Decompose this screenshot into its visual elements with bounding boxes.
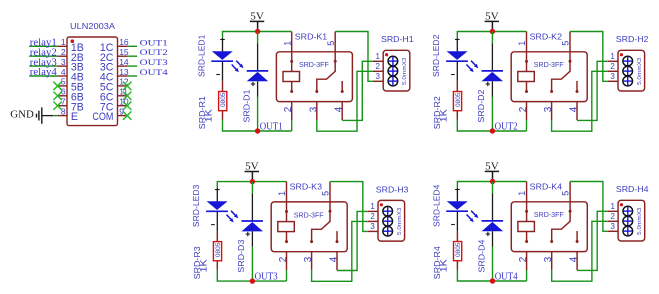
LED SRD-LED3 cathode pin	[216, 212, 218, 231]
relay SRD-K4 body	[511, 202, 587, 252]
svg-text:4: 4	[569, 256, 580, 262]
relay SRD-K3 pin 4	[336, 252, 338, 271]
relay SRD-K1 coil	[291, 52, 293, 72]
no-connect X (right pin)	[123, 102, 131, 110]
junction 5V node (channel 1)	[255, 29, 260, 34]
IC U1 pin 8 (E)	[58, 115, 67, 117]
svg-text:5: 5	[326, 41, 337, 46]
svg-text:SRD-D1: SRD-D1	[241, 89, 251, 122]
LED SRD-LED1 emission arrows	[236, 61, 240, 65]
svg-text:OUT1: OUT1	[260, 121, 283, 132]
wire net relay3	[29, 65, 57, 67]
svg-text:SRD-D4: SRD-D4	[476, 239, 486, 272]
diode SRD-D3 anode pin	[251, 231, 253, 246]
IC U1 pin-1 marker dot	[71, 39, 75, 43]
wire relay pin2 to OUT rail (channel 4)	[526, 270, 528, 281]
wire diode to OUT rail (channel 3)	[251, 247, 253, 282]
connector SRD-H3 pin 2	[368, 220, 378, 222]
LED SRD-LED4 triangle	[447, 201, 468, 210]
IC U1 pin 15 (2C)	[118, 55, 128, 57]
diode SRD-D3 cathode bar	[242, 220, 264, 222]
svg-text:COM: COM	[92, 111, 113, 123]
connector SRD-H2 body	[618, 50, 645, 91]
connector SRD-H4 pin 3	[608, 230, 618, 232]
svg-text:SRD-D2: SRD-D2	[476, 89, 486, 122]
svg-text:3: 3	[610, 222, 615, 231]
svg-text:3: 3	[376, 72, 381, 81]
junction 5V node (channel 4)	[490, 179, 495, 184]
diode SRD-D3 cathode pin	[251, 194, 253, 221]
svg-text:2: 2	[278, 256, 289, 262]
svg-text:1: 1	[610, 52, 615, 61]
relay SRD-K2 pin 4	[576, 102, 578, 121]
IC U1 pin 12 (5C)	[118, 85, 128, 87]
diode SRD-D2 cathode pin	[491, 44, 493, 71]
svg-text:relay4: relay4	[30, 67, 57, 78]
junction OUT3 node	[250, 278, 255, 283]
LED SRD-LED2 emission arrows	[471, 61, 475, 65]
wire relay pin4 to connector pin1 (channel 1)	[342, 61, 373, 120]
relay SRD-K4 pin 3	[551, 252, 553, 271]
relay SRD-K2 pin 2	[526, 102, 528, 121]
svg-text:SRD-LED2: SRD-LED2	[431, 34, 441, 77]
svg-text:4: 4	[329, 256, 340, 262]
IC U1 pin 3 (3B)	[58, 65, 67, 67]
wire relay pin3 to connector pin2 (channel 4)	[552, 221, 608, 281]
svg-text:SRD-LED4: SRD-LED4	[431, 184, 441, 227]
connector SRD-H1 pin 2	[373, 70, 383, 72]
svg-text:OUT3: OUT3	[140, 57, 168, 67]
wire net relay4	[29, 75, 57, 77]
svg-text:5: 5	[321, 191, 332, 196]
no-connect X (left pin)	[53, 92, 61, 100]
resistor SRD-R3 body	[213, 242, 221, 261]
LED SRD-LED2 anode pin	[456, 38, 458, 52]
diode SRD-D4 anode pin	[492, 231, 494, 246]
relay SRD-K2 body	[511, 52, 587, 102]
connector SRD-H4 pin 1	[608, 210, 618, 212]
connector SRD-H3 terminal circle 3	[383, 226, 393, 236]
relay SRD-K2 pin 5	[569, 32, 571, 52]
connector SRD-H2 pin-1 marker dot	[620, 53, 623, 56]
LED SRD-LED1 cathode bar	[211, 60, 233, 62]
wire relay pin2 to OUT rail (channel 2)	[526, 120, 528, 131]
svg-text:SRD-LED1: SRD-LED1	[196, 34, 206, 77]
relay SRD-K3 pin 2	[286, 252, 288, 271]
svg-text:OUT2: OUT2	[495, 121, 518, 132]
LED SRD-LED1 cathode pin	[222, 62, 224, 81]
wire net relay1	[29, 45, 57, 47]
svg-text:OUT4: OUT4	[140, 67, 169, 77]
connector SRD-H1 terminal circle 1	[388, 56, 398, 66]
connector SRD-H2 terminal circle 1	[623, 56, 633, 66]
svg-text:0805: 0805	[221, 92, 227, 107]
svg-text:1: 1	[376, 52, 381, 61]
svg-text:3: 3	[543, 106, 554, 112]
relay SRD-K1 pin 4	[341, 102, 343, 121]
connector SRD-H3 terminal circle 1	[383, 206, 393, 216]
svg-text:4: 4	[61, 67, 66, 77]
connector SRD-H3 pin 3	[368, 230, 378, 232]
diode SRD-D4 cathode pin	[492, 194, 494, 221]
LED SRD-LED4 cathode bar	[446, 210, 468, 212]
connector SRD-H1 body	[383, 50, 410, 91]
relay SRD-K3 pin 5	[329, 182, 331, 202]
wire relay pin4 to connector pin1 (channel 4)	[577, 211, 608, 270]
svg-text:5.0mmX3: 5.0mmX3	[402, 58, 408, 85]
wire 5V top rail (channel 1)	[223, 32, 292, 38]
svg-text:1K: 1K	[439, 109, 449, 122]
relay SRD-K3 coil	[286, 202, 288, 222]
junction 5V node (channel 3)	[250, 179, 255, 184]
svg-text:1: 1	[517, 191, 528, 196]
resistor SRD-R1 body	[219, 92, 227, 111]
svg-text:SRD-K4: SRD-K4	[530, 181, 563, 191]
wire net OUT2 at IC	[127, 55, 137, 57]
svg-text:0805: 0805	[216, 242, 222, 257]
diode SRD-D2 triangle	[482, 72, 504, 81]
svg-text:SRD-H4: SRD-H4	[616, 184, 649, 194]
wire 5V top rail (channel 3)	[217, 182, 286, 188]
svg-text:2: 2	[283, 106, 294, 112]
wire resistor to OUT rail (channel 1)	[223, 120, 292, 132]
IC U1 pin 13 (4C)	[118, 75, 128, 77]
relay SRD-K4 pin 2	[526, 252, 528, 271]
connector SRD-H1 terminal circle 2	[388, 66, 398, 76]
svg-text:5.0mmX3: 5.0mmX3	[637, 208, 643, 235]
wire 5V top rail (channel 2)	[457, 32, 526, 38]
no-connect X (right pin)	[123, 82, 131, 90]
relay SRD-K2 pin 1	[526, 32, 528, 52]
diode SRD-D1 triangle	[247, 72, 269, 81]
connector SRD-H2 terminal circle 2	[623, 66, 633, 76]
wire relay pin2 to OUT rail (channel 1)	[291, 120, 293, 131]
diode SRD-D4 cathode bar	[482, 220, 504, 222]
resistor SRD-R2 body	[453, 92, 461, 111]
svg-text:SRD-3FF: SRD-3FF	[299, 62, 329, 69]
wire relay pin4 to connector pin1 (channel 2)	[577, 61, 608, 120]
svg-text:2: 2	[370, 212, 375, 221]
no-connect X (left pin)	[53, 102, 61, 110]
connector SRD-H1 pin-1 marker dot	[385, 53, 388, 56]
svg-text:SRD-K1: SRD-K1	[295, 31, 328, 41]
connector SRD-H3 pin 1	[368, 210, 378, 212]
svg-text:3: 3	[543, 256, 554, 262]
LED SRD-LED1 triangle	[212, 51, 233, 60]
svg-text:1K: 1K	[439, 259, 449, 272]
wire GND to pin 8	[42, 115, 53, 117]
relay SRD-K4 pin 1	[526, 182, 528, 202]
relay SRD-K2 switch	[569, 60, 572, 63]
no-connect X (right pin)	[123, 111, 131, 119]
svg-text:SRD-D3: SRD-D3	[236, 239, 246, 272]
wire relay pin5 to connector pin3 (channel 3)	[330, 182, 368, 232]
IC U1 pin 6 (6B)	[58, 95, 67, 97]
resistor SRD-R1 pins	[222, 81, 224, 91]
svg-text:1: 1	[61, 37, 66, 47]
IC U1 pin 14 (3C)	[118, 65, 128, 67]
svg-text:SRD-LED3: SRD-LED3	[191, 184, 201, 227]
svg-text:GND: GND	[10, 110, 34, 121]
connector SRD-H3 body	[378, 200, 405, 241]
svg-text:2: 2	[518, 106, 529, 112]
wire resistor to OUT rail (channel 2)	[457, 120, 526, 132]
svg-text:1: 1	[282, 41, 293, 46]
wire net relay2	[29, 55, 57, 57]
wire relay pin5 to connector pin3 (channel 4)	[570, 182, 608, 232]
junction 5V node (channel 2)	[490, 29, 495, 34]
svg-text:SRD-K2: SRD-K2	[530, 31, 563, 41]
wire diode to OUT rail (channel 2)	[491, 97, 493, 132]
wire relay pin5 to connector pin3 (channel 1)	[335, 32, 373, 82]
svg-text:3: 3	[61, 57, 66, 67]
connector SRD-H4 pin-1 marker dot	[620, 203, 623, 206]
svg-text:0805: 0805	[456, 242, 462, 257]
connector SRD-H1 pin 1	[373, 60, 383, 62]
connector SRD-H1 terminal circle 3	[388, 76, 398, 86]
LED SRD-LED4 emission arrows	[471, 211, 475, 215]
svg-text:5: 5	[561, 41, 572, 46]
connector SRD-H4 terminal circle 2	[623, 216, 633, 226]
svg-text:OUT1: OUT1	[140, 37, 168, 47]
LED SRD-LED2 cathode bar	[446, 60, 468, 62]
svg-text:2: 2	[518, 256, 529, 262]
no-connect X (left pin)	[53, 82, 61, 90]
svg-text:3: 3	[370, 222, 375, 231]
wire diode to OUT rail (channel 4)	[492, 247, 494, 282]
resistor SRD-R3 pins	[216, 231, 218, 241]
svg-text:1: 1	[517, 41, 528, 46]
svg-text:SRD-3FF: SRD-3FF	[534, 62, 564, 69]
resistor SRD-R4 pins	[456, 231, 458, 241]
connector SRD-H1 pin 3	[373, 80, 383, 82]
relay SRD-K1 switch	[334, 60, 337, 63]
junction OUT2 node	[490, 128, 495, 133]
connector SRD-H3 pin-1 marker dot	[380, 203, 383, 206]
svg-text:3: 3	[303, 256, 314, 262]
svg-text:4: 4	[334, 106, 345, 112]
connector SRD-H4 body	[618, 200, 645, 241]
svg-text:1: 1	[610, 202, 615, 211]
LED SRD-LED3 triangle	[207, 201, 228, 210]
IC U1 pin 11 (6C)	[118, 95, 128, 97]
relay SRD-K4 pin 4	[576, 252, 578, 271]
diode SRD-D3 triangle	[242, 222, 264, 231]
svg-text:1: 1	[370, 202, 375, 211]
relay SRD-K3 switch	[329, 210, 332, 213]
relay SRD-K2 pin 3	[551, 102, 553, 121]
relay SRD-K1 pin 2	[291, 102, 293, 121]
connector SRD-H2 terminal circle 3	[623, 76, 633, 86]
connector SRD-H4 terminal circle 3	[623, 226, 633, 236]
relay SRD-K4 pin 5	[569, 182, 571, 202]
svg-text:OUT3: OUT3	[255, 272, 278, 283]
wire resistor to OUT rail (channel 4)	[457, 270, 526, 282]
IC U1 pin 4 (4B)	[58, 75, 67, 77]
svg-text:0805: 0805	[456, 92, 462, 107]
LED SRD-LED3 emission arrows	[231, 211, 235, 215]
svg-text:SRD-H1: SRD-H1	[381, 34, 414, 44]
svg-text:2: 2	[610, 62, 615, 71]
diode SRD-D1 cathode pin	[257, 44, 259, 71]
relay SRD-K2 coil	[526, 52, 528, 72]
svg-text:SRD-3FF: SRD-3FF	[534, 212, 564, 219]
relay SRD-K1 pin 1	[291, 32, 293, 52]
LED SRD-LED1 anode pin	[222, 38, 224, 52]
connector SRD-H2 pin 2	[608, 70, 618, 72]
LED SRD-LED4 anode pin	[456, 188, 458, 202]
IC U1 pin 1 (1B)	[58, 45, 67, 47]
wire diode to OUT rail (channel 1)	[257, 97, 259, 132]
diode SRD-D4 triangle	[482, 222, 504, 231]
svg-text:1K: 1K	[204, 109, 214, 122]
IC U1 pin 10 (7C)	[118, 105, 128, 107]
svg-text:2: 2	[376, 62, 381, 71]
relay SRD-K3 pin 3	[311, 252, 313, 271]
junction OUT1 node	[255, 128, 260, 133]
IC U1 pin 7 (7B)	[58, 105, 67, 107]
LED SRD-LED2 triangle	[447, 51, 468, 60]
wire relay pin2 to OUT rail (channel 3)	[286, 270, 288, 281]
diode SRD-D1 anode pin	[257, 81, 259, 96]
svg-text:OUT4: OUT4	[495, 271, 518, 282]
wire 5V top rail (channel 4)	[457, 182, 526, 188]
relay SRD-K1 body	[276, 52, 352, 102]
svg-text:8: 8	[61, 106, 66, 116]
svg-text:1: 1	[277, 191, 288, 196]
IC U1 ULN2003A body	[67, 37, 118, 126]
relay SRD-K1 pin 5	[334, 32, 336, 52]
LED SRD-LED2 cathode pin	[456, 62, 458, 81]
svg-text:SRD-H3: SRD-H3	[376, 184, 409, 194]
svg-text:SRD-3FF: SRD-3FF	[294, 212, 324, 219]
wire net OUT4 at IC	[127, 75, 137, 77]
svg-text:5.0mmX3: 5.0mmX3	[637, 58, 643, 85]
svg-text:1K: 1K	[199, 259, 209, 272]
wire relay pin3 to connector pin2 (channel 3)	[312, 221, 368, 281]
connector SRD-H4 terminal circle 1	[623, 206, 633, 216]
resistor SRD-R2 pins	[456, 81, 458, 91]
connector SRD-H4 pin 2	[608, 220, 618, 222]
svg-text:SRD-K3: SRD-K3	[290, 182, 323, 192]
connector SRD-H2 pin 1	[608, 60, 618, 62]
svg-text:3: 3	[610, 72, 615, 81]
wire resistor to OUT rail (channel 3)	[217, 270, 286, 282]
IC U1 pin 2 (2B)	[58, 55, 67, 57]
connector SRD-H3 terminal circle 2	[383, 216, 393, 226]
wire relay pin5 to connector pin3 (channel 2)	[570, 32, 608, 82]
svg-text:2: 2	[61, 47, 66, 57]
IC U1 pin 16 (1C)	[118, 45, 128, 47]
diode SRD-D2 cathode bar	[482, 70, 504, 72]
relay SRD-K3 pin 1	[286, 182, 288, 202]
wire relay pin3 to connector pin2 (channel 1)	[317, 71, 373, 131]
wire relay pin4 to connector pin1 (channel 3)	[337, 211, 368, 270]
relay SRD-K3 body	[271, 202, 347, 252]
relay SRD-K4 coil	[526, 202, 528, 222]
connector SRD-H2 pin 3	[608, 80, 618, 82]
LED SRD-LED3 cathode bar	[206, 210, 228, 212]
svg-text:ULN2003A: ULN2003A	[70, 21, 115, 31]
svg-text:3: 3	[308, 106, 319, 112]
LED SRD-LED4 cathode pin	[456, 212, 458, 231]
svg-text:5: 5	[561, 191, 572, 196]
svg-text:SRD-H2: SRD-H2	[616, 34, 649, 44]
no-connect X (right pin)	[123, 92, 131, 100]
IC U1 pin 5 (5B)	[58, 85, 67, 87]
wire relay pin3 to connector pin2 (channel 2)	[552, 71, 608, 131]
diode SRD-D2 anode pin	[491, 81, 493, 96]
svg-text:E: E	[71, 111, 78, 123]
wire net OUT3 at IC	[127, 65, 137, 67]
svg-text:OUT2: OUT2	[140, 47, 168, 57]
junction OUT4 node	[490, 278, 495, 283]
svg-text:5.0mmX3: 5.0mmX3	[397, 208, 403, 235]
resistor SRD-R4 body	[454, 242, 462, 261]
svg-text:4: 4	[569, 106, 580, 112]
relay SRD-K1 pin 3	[316, 102, 318, 121]
LED SRD-LED3 anode pin	[216, 188, 218, 202]
diode SRD-D1 cathode bar	[247, 70, 269, 72]
svg-text:2: 2	[610, 212, 615, 221]
IC U1 pin 9 (COM)	[118, 115, 128, 117]
relay SRD-K4 switch	[569, 210, 572, 213]
wire net OUT1 at IC	[127, 45, 137, 47]
